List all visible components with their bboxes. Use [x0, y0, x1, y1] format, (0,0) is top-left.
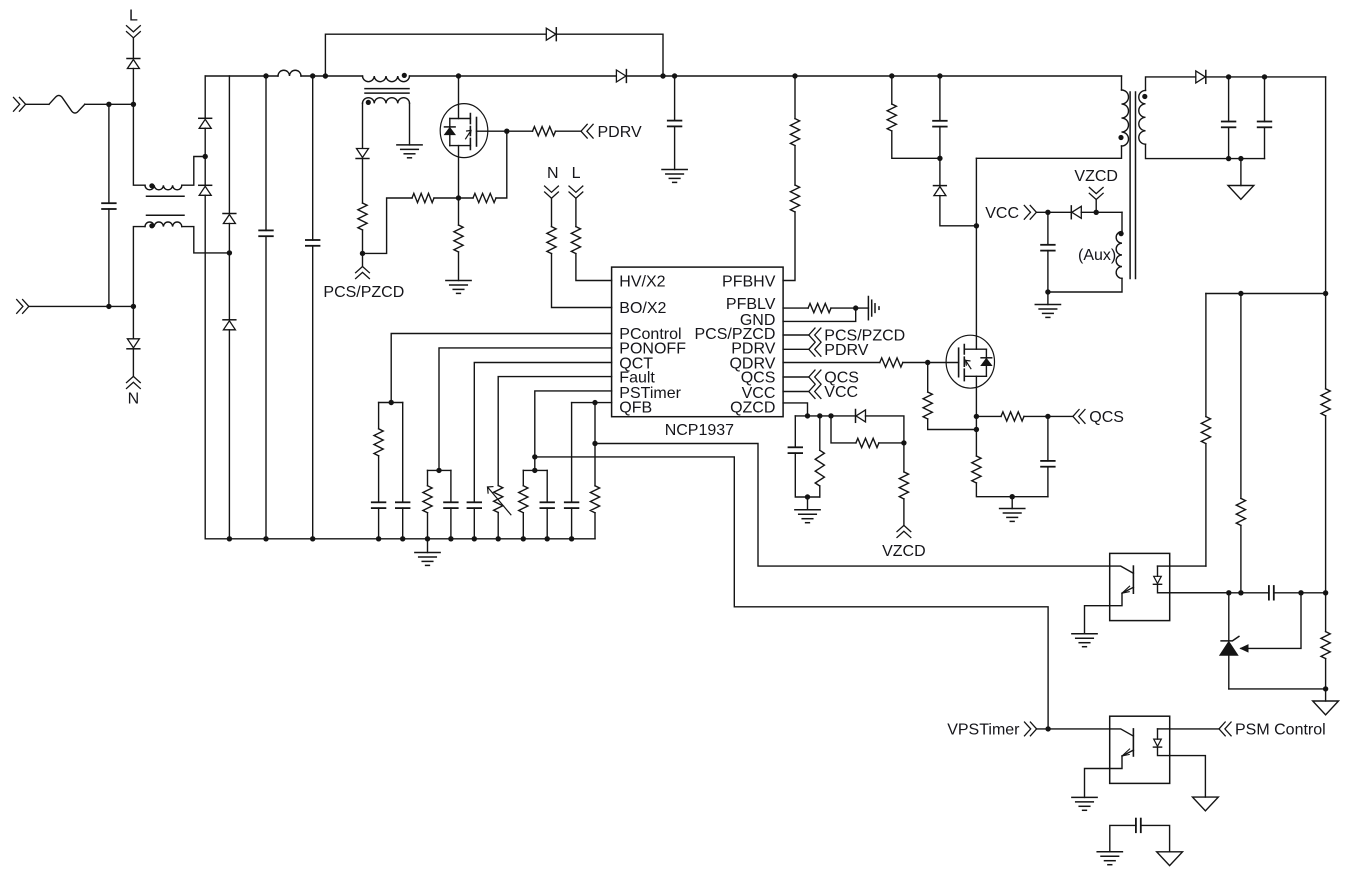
junction	[106, 102, 111, 107]
pin QCS label	[741, 370, 776, 387]
svg-text:PSM Control: PSM Control	[1235, 722, 1326, 739]
wire	[795, 453, 820, 497]
svg-text:PFBHV: PFBHV	[722, 274, 776, 291]
inductor CM choke winding 2	[145, 222, 182, 227]
net VPSTimer label	[947, 722, 1020, 739]
wire VPSTimer	[1037, 728, 1110, 730]
junction	[1045, 289, 1050, 294]
pin PCS/PZCD label	[694, 326, 775, 343]
diode D1 (L to HV)	[127, 59, 140, 69]
ground	[1072, 634, 1097, 647]
node L label	[129, 8, 138, 25]
wire	[362, 159, 364, 204]
wire bus	[205, 75, 278, 77]
wire	[1228, 77, 1230, 122]
resistor R QCS filter	[1001, 412, 1024, 421]
resistor R divider lower	[1321, 632, 1330, 659]
wire	[1325, 416, 1327, 593]
wire	[378, 456, 380, 503]
resistor R QCS sense	[972, 456, 981, 483]
svg-text:QFB: QFB	[619, 400, 652, 417]
ground secondary	[1157, 852, 1183, 866]
junction	[496, 536, 501, 541]
transformer T2 secondary	[1139, 90, 1146, 144]
ground secondary	[1313, 689, 1339, 715]
wire	[1170, 592, 1229, 594]
fuse F1	[49, 95, 85, 113]
wire	[819, 486, 821, 497]
thermistor R Fault	[488, 486, 511, 515]
junction	[937, 156, 942, 161]
svg-text:(Aux): (Aux)	[1078, 247, 1116, 264]
phase dot	[149, 183, 154, 188]
wire	[1240, 294, 1242, 499]
junction	[1226, 74, 1231, 79]
pin Fault label	[619, 370, 655, 387]
capacitor C QCS	[1041, 461, 1055, 467]
wire	[939, 76, 941, 121]
net PSM Control label	[1235, 722, 1326, 739]
ground	[1097, 852, 1122, 865]
inductor filter L1	[278, 70, 301, 76]
wire	[402, 403, 404, 503]
capacitor C VCC	[1041, 245, 1055, 251]
junction	[660, 73, 665, 78]
junction	[448, 536, 453, 541]
ground	[1000, 497, 1025, 522]
junction	[805, 413, 810, 418]
diode D8 PCS	[356, 149, 369, 159]
wire	[1095, 200, 1097, 213]
wire bus	[301, 75, 363, 77]
wire source	[975, 376, 977, 456]
wire	[674, 76, 676, 121]
phase dot	[149, 223, 154, 228]
part number NCP1937	[665, 422, 734, 439]
wire PSTimer	[535, 391, 612, 471]
resistor R PONOFF	[423, 486, 432, 513]
wire	[927, 363, 929, 393]
capacitor C out 2	[1258, 122, 1272, 128]
pin PONOFF label	[619, 341, 686, 358]
diode D4 bridge	[199, 185, 212, 195]
wire	[1170, 565, 1206, 567]
net PCS/PZCD label	[824, 328, 905, 345]
svg-text:L: L	[572, 165, 581, 182]
wire	[132, 69, 134, 105]
pin PDRV label	[731, 341, 775, 358]
pin BO/X2 label	[619, 300, 666, 317]
pin QZCD label	[730, 400, 775, 417]
terminal L	[127, 26, 141, 38]
terminal PCS/PZCD in	[809, 328, 821, 342]
junction	[1045, 210, 1050, 215]
inductor T1 PFC primary	[363, 76, 410, 82]
wire	[204, 128, 206, 156]
wire	[1081, 211, 1122, 213]
phase dot	[1118, 135, 1123, 140]
wire PFBLV	[783, 307, 808, 309]
junction	[360, 251, 365, 256]
wire	[576, 254, 612, 281]
wire bypass	[325, 34, 545, 76]
pin PFBLV label	[726, 296, 776, 313]
wire	[1325, 77, 1327, 389]
wire	[556, 130, 582, 132]
svg-text:VPSTimer: VPSTimer	[947, 722, 1020, 739]
wire	[458, 146, 460, 198]
wire	[507, 130, 533, 132]
inductor T1 PFC aux winding	[363, 98, 410, 104]
junction	[1045, 414, 1050, 419]
svg-text:VZCD: VZCD	[882, 543, 926, 560]
svg-text:BO/X2: BO/X2	[619, 300, 666, 317]
wire	[133, 227, 145, 307]
wire	[546, 470, 548, 502]
wire	[312, 76, 314, 240]
junction	[203, 154, 208, 159]
junction	[1226, 156, 1231, 161]
ground secondary	[1228, 159, 1254, 200]
resistor R PFBLV	[808, 304, 831, 313]
capacitor C PControl 1	[372, 502, 386, 508]
wire bus	[410, 75, 617, 77]
pin VCC label	[742, 385, 776, 402]
junction	[532, 454, 537, 459]
wire	[1205, 294, 1207, 417]
wire	[892, 131, 940, 158]
junction	[901, 440, 906, 445]
ground	[397, 145, 422, 158]
wire	[1048, 278, 1122, 292]
wire QCS tap	[976, 415, 1001, 417]
junction	[569, 536, 574, 541]
wire	[1047, 416, 1049, 461]
wire	[1085, 606, 1110, 634]
junction	[1298, 590, 1303, 595]
junction	[376, 536, 381, 541]
wire	[228, 330, 230, 539]
wire	[1325, 659, 1327, 689]
resistor R PFBHV 2	[790, 185, 799, 212]
wire	[1205, 444, 1207, 566]
junction	[974, 414, 979, 419]
diode D3 bridge	[199, 118, 212, 128]
junction	[1323, 291, 1328, 296]
wire gate	[477, 130, 507, 132]
junction	[853, 305, 858, 310]
svg-text:VCC: VCC	[985, 205, 1019, 222]
wire	[976, 146, 1121, 158]
wire	[363, 198, 413, 253]
optocoupler U3	[1110, 553, 1170, 620]
diode D7 bypass	[546, 28, 556, 41]
svg-text:PCS/PZCD: PCS/PZCD	[323, 284, 404, 301]
wire	[571, 403, 573, 503]
phase dot	[366, 100, 371, 105]
wire	[1036, 211, 1071, 213]
wire	[1110, 825, 1136, 851]
wire	[1229, 688, 1326, 690]
transistor Q1 PFC MOSFET	[440, 104, 488, 158]
wire QDRV	[783, 362, 880, 364]
net PCS/PZCD label	[323, 284, 404, 301]
junction	[263, 73, 268, 78]
wire	[794, 76, 796, 119]
resistor R QDRV pulldown	[923, 392, 932, 419]
wire	[434, 197, 459, 199]
capacitor C comp	[1269, 586, 1274, 600]
diode D13 VCC	[1071, 206, 1081, 219]
wire QZCD	[783, 403, 807, 416]
junction	[472, 536, 477, 541]
ground	[662, 170, 687, 183]
wire	[132, 349, 134, 377]
diode D2 (N to HV)	[127, 339, 140, 349]
svg-text:PDRV: PDRV	[598, 124, 642, 141]
wire QCS pin	[783, 376, 809, 378]
resistor R LED	[1201, 417, 1210, 444]
wire	[1228, 127, 1230, 158]
net QCS label	[824, 370, 859, 387]
wire QFB to opto	[595, 444, 1110, 567]
wire	[228, 253, 230, 320]
junction	[817, 413, 822, 418]
junction	[227, 536, 232, 541]
junction	[1323, 590, 1328, 595]
junction	[592, 400, 597, 405]
wire PSM	[1170, 728, 1219, 730]
wire	[265, 236, 267, 539]
wire	[522, 470, 524, 485]
ground signal	[868, 297, 879, 320]
capacitor C bulk	[306, 240, 320, 246]
junction	[425, 536, 430, 541]
wire	[831, 416, 856, 443]
junction	[1238, 156, 1243, 161]
capacitor C PSTimer	[540, 502, 554, 508]
net VZCD label	[882, 543, 926, 560]
junction	[805, 494, 810, 499]
wire	[831, 415, 856, 417]
wire	[1240, 525, 1242, 592]
wire	[866, 416, 904, 443]
resistor R PSTimer	[519, 486, 528, 513]
net QCS label	[1089, 409, 1124, 426]
wire	[450, 470, 452, 502]
wire	[108, 104, 110, 203]
junction	[937, 73, 942, 78]
wire	[1141, 825, 1170, 851]
wire PSTimer to opto	[535, 457, 1048, 729]
wire	[903, 362, 959, 364]
wire	[182, 157, 205, 186]
wire	[594, 403, 596, 444]
resistor R QDRV	[880, 358, 903, 367]
transformer T2 primary	[1122, 90, 1129, 146]
svg-text:VCC: VCC	[824, 384, 858, 401]
wire	[1325, 593, 1327, 632]
ground	[1072, 797, 1097, 810]
ground	[795, 497, 820, 523]
junction	[456, 73, 461, 78]
resistor R VZCD	[899, 472, 908, 499]
wire	[794, 416, 796, 447]
junction	[1238, 291, 1243, 296]
junction	[672, 73, 677, 78]
resistor R gate PDRV	[533, 127, 556, 136]
terminal VZCD	[897, 525, 911, 537]
pin QDRV label	[729, 355, 775, 372]
diode D11 clamp	[934, 186, 947, 196]
svg-text:VZCD: VZCD	[1074, 168, 1118, 185]
junction	[592, 441, 597, 446]
wire	[903, 499, 905, 526]
wire	[133, 104, 145, 185]
wire	[228, 76, 230, 214]
terminal AC line input	[14, 97, 26, 111]
junction	[792, 73, 797, 78]
aux label	[1078, 247, 1116, 264]
wire fast lane	[1206, 293, 1326, 295]
net VZCD label	[1074, 168, 1118, 185]
junction	[131, 102, 136, 107]
wire	[26, 103, 49, 105]
shunt regulator U2 TL431	[1220, 636, 1239, 689]
wire	[1121, 76, 1123, 90]
capacitor CY	[1136, 819, 1141, 833]
wire	[794, 146, 796, 185]
resistor R PControl	[374, 429, 383, 456]
junction	[545, 536, 550, 541]
wire	[571, 508, 573, 539]
wire	[1264, 77, 1266, 122]
ground	[446, 281, 471, 294]
wire VCC pin	[783, 391, 809, 393]
ground secondary	[1193, 797, 1219, 811]
junction	[532, 468, 537, 473]
resistor R clamp	[887, 104, 896, 131]
capacitor C PFC out	[668, 121, 682, 127]
resistor R gate-source	[473, 193, 496, 202]
terminal PDRV out	[809, 342, 821, 356]
pin GND label	[740, 312, 776, 329]
junction	[1323, 686, 1328, 691]
capacitor C out 1	[1222, 122, 1236, 128]
wire	[108, 209, 110, 306]
resistor R QZCD shunt	[815, 450, 824, 486]
wire PCS/PZCD pin	[783, 334, 809, 336]
wire	[940, 196, 977, 226]
diode D9 PFC boost	[616, 70, 626, 83]
junction	[263, 536, 268, 541]
wire	[939, 127, 941, 159]
ground	[1035, 292, 1060, 317]
wire PFBHV	[783, 212, 795, 281]
ground	[415, 539, 440, 566]
junction	[400, 536, 405, 541]
wire	[1146, 144, 1265, 158]
node L label	[572, 165, 581, 182]
terminal PCS/PZCD	[356, 267, 370, 279]
wire	[458, 198, 460, 225]
wire	[85, 103, 134, 105]
wire	[976, 483, 1048, 497]
pin PFBHV label	[722, 274, 776, 291]
wire	[891, 76, 893, 104]
resistor R source	[454, 225, 463, 252]
wire	[428, 469, 451, 471]
wire	[496, 131, 507, 198]
terminal N	[127, 376, 141, 388]
junction	[436, 468, 441, 473]
junction	[1238, 590, 1243, 595]
resistor R sense	[412, 193, 434, 202]
wire	[1085, 769, 1110, 798]
wire GND pin	[783, 308, 856, 321]
terminal PDRV	[581, 124, 593, 138]
junction	[227, 250, 232, 255]
capacitor CX1	[102, 203, 116, 209]
wire	[362, 103, 364, 148]
wire TL431 ref	[1241, 593, 1302, 652]
wire	[265, 76, 267, 230]
junction	[974, 223, 979, 228]
junction	[504, 129, 509, 134]
wire	[427, 470, 429, 485]
wire	[879, 442, 904, 444]
wire	[409, 103, 411, 145]
wire QCT	[474, 363, 611, 503]
wire	[362, 230, 364, 267]
capacitor C QFB	[565, 502, 579, 508]
phase dot	[402, 73, 407, 78]
net VCC label	[824, 384, 858, 401]
wire	[473, 508, 475, 539]
wire	[204, 195, 206, 539]
wire	[575, 198, 577, 226]
pin QCT label	[619, 355, 653, 372]
junction	[925, 360, 930, 365]
wire rail	[205, 538, 595, 540]
wire	[1170, 756, 1206, 798]
wire	[427, 513, 429, 539]
junction	[389, 400, 394, 405]
resistor R divider upper	[1321, 389, 1330, 416]
junction	[1010, 494, 1015, 499]
resistor R QZCD series	[856, 438, 879, 447]
terminal L sense	[569, 186, 583, 198]
wire	[132, 306, 134, 338]
resistor R QFB	[590, 486, 599, 513]
wire	[594, 513, 596, 539]
wire	[939, 158, 941, 185]
capacitor C PONOFF	[444, 502, 458, 508]
inductor CM choke winding 1	[145, 185, 182, 190]
capacitor C QCT	[468, 502, 482, 508]
terminal VZCD aux	[1089, 187, 1103, 199]
core	[147, 196, 185, 215]
terminal VCC in	[809, 385, 821, 399]
svg-text:N: N	[128, 391, 140, 408]
wire	[831, 307, 868, 309]
junction	[323, 73, 328, 78]
junction	[131, 304, 136, 309]
junction	[521, 536, 526, 541]
svg-text:HV/X2: HV/X2	[619, 274, 665, 291]
wire	[928, 419, 977, 430]
terminal VCC out	[1024, 205, 1036, 219]
